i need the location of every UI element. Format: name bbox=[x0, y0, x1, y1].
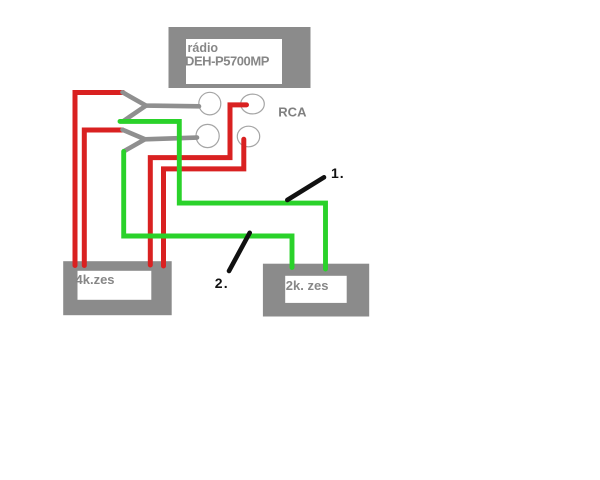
arrow 1 pointer bbox=[287, 177, 324, 200]
RCA jack top-left bbox=[199, 92, 221, 115]
splitter Y2 gray (to RCA bottom-left) bbox=[123, 130, 198, 152]
RCA jack top-right bbox=[241, 94, 265, 114]
wire green 1 (Y1 to 2k.zes) bbox=[120, 121, 326, 269]
wire red D (RCA bottom-right to 4k.zes) bbox=[164, 139, 244, 266]
splitter Y1 gray (to RCA top-left) bbox=[123, 92, 200, 120]
svg-text:1.: 1. bbox=[331, 165, 345, 181]
wire red left A (radio to 4k.zes) bbox=[75, 93, 123, 266]
amplifier 4k.zes box bbox=[63, 261, 172, 315]
RCA jack bottom-left bbox=[196, 124, 219, 147]
wire red C (RCA top-right to 4k.zes) bbox=[150, 105, 246, 265]
RCA jack bottom-right bbox=[237, 126, 259, 147]
arrow 2 pointer bbox=[229, 233, 250, 271]
amplifier 2k.zes box bbox=[263, 264, 369, 317]
svg-text:4k.zes: 4k.zes bbox=[76, 272, 115, 287]
svg-text:DEH-P5700MP: DEH-P5700MP bbox=[185, 54, 270, 69]
svg-text:2.: 2. bbox=[215, 275, 229, 291]
wire red left B (radio to 4k.zes) bbox=[84, 130, 122, 266]
svg-text:2k. zes: 2k. zes bbox=[286, 278, 329, 293]
wire green 2 (Y2 to 2k.zes) bbox=[124, 152, 292, 268]
svg-text:RCA: RCA bbox=[278, 104, 307, 119]
radio head unit box bbox=[169, 27, 311, 88]
